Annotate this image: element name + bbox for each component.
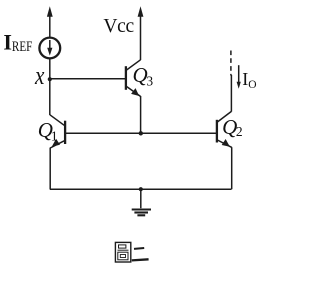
transistor Q2 collector [217,111,231,122]
wire node x to Q3 base [50,78,126,80]
transistor Q2 emitter with arrow [217,140,231,147]
svg-text:REF: REF [12,39,33,55]
current source IREF circle [39,38,60,59]
svg-text:1: 1 [51,129,58,144]
wire Q2 collector solid up [230,75,232,112]
wire Q3 emitter to base rail [140,96,142,133]
caption 圖 (figure) drawn glyph [115,242,130,262]
ground stem [140,189,142,208]
svg-text:Q: Q [133,63,148,87]
caption 二 drawn glyph [132,248,149,260]
junction dot ground [139,187,143,191]
svg-text:3: 3 [146,74,153,89]
svg-text:2: 2 [236,124,243,139]
IO arrow [238,65,240,83]
base rail Q1 to Q2 [65,132,217,134]
bottom rail [50,188,232,190]
ground bar 3 [137,214,145,216]
node x junction dot [48,77,52,81]
current source IREF top arrow [49,16,51,38]
svg-text:x: x [34,61,45,90]
ground bar 2 [134,211,148,213]
junction dot base rail [139,131,143,135]
wire Q2 emitter to bottom rail [231,147,233,189]
transistor Q1 base bar [64,121,66,144]
svg-text:I: I [3,29,12,54]
transistor Q1 emitter with arrow [50,141,64,148]
svg-text:O: O [248,79,256,91]
wire Q3 collector to Vcc arrow [140,16,142,61]
svg-text:Vcc: Vcc [103,16,134,37]
wire Q1 emitter to bottom rail [49,148,51,190]
transistor Q3 collector [126,60,141,71]
transistor Q1 collector [50,115,64,126]
current source IREF inner arrow [49,40,51,50]
wire circle to node x to Q1 collector [49,58,51,115]
dashed wire IO [230,51,232,76]
ground bar 1 [132,208,151,210]
transistor Q3 base bar [125,66,127,90]
transistor Q3 emitter with arrow [126,86,141,96]
transistor Q2 base bar [216,120,218,143]
